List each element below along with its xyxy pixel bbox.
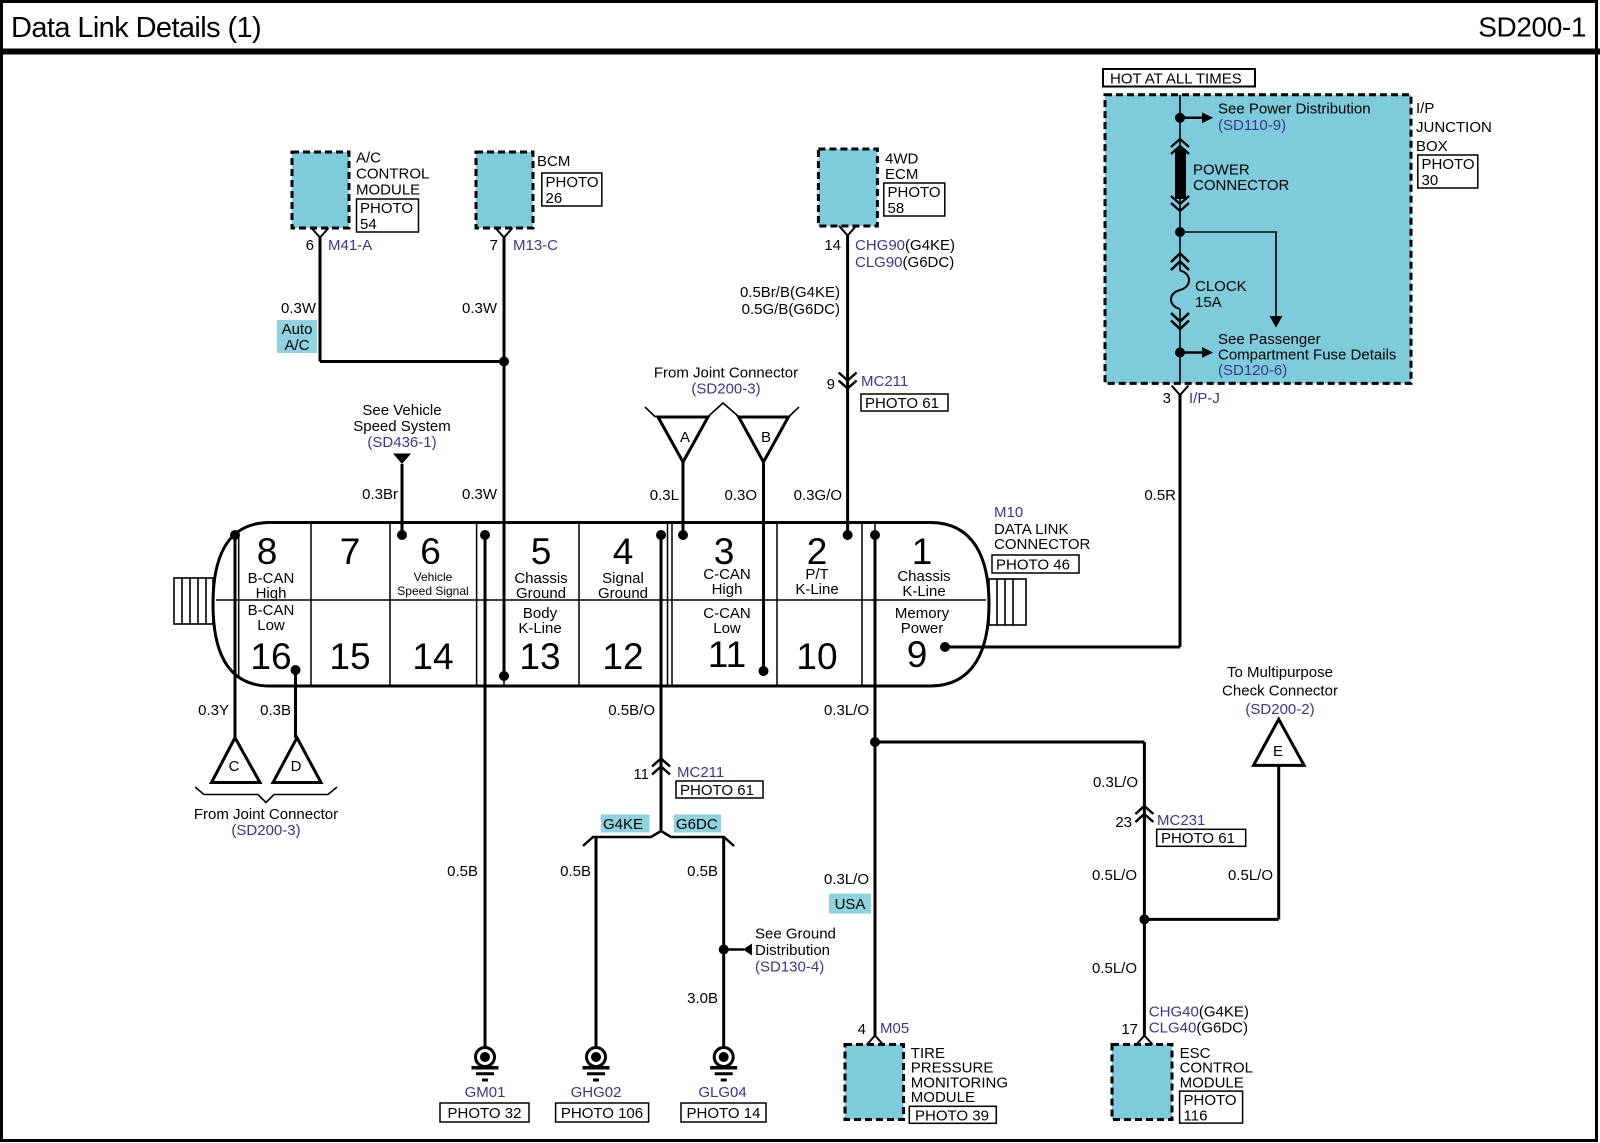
svg-text:K-Line: K-Line: [902, 583, 945, 600]
reference From Joint Connector (SD200-3) top: [654, 365, 798, 398]
svg-text:Compartment Fuse Details: Compartment Fuse Details: [1218, 347, 1396, 364]
node pin 5 dot: [480, 530, 490, 540]
svg-text:Ground: Ground: [598, 585, 648, 602]
svg-text:17: 17: [1121, 1021, 1138, 1038]
svg-text:PHOTO: PHOTO: [360, 200, 413, 217]
svg-text:0.3W: 0.3W: [462, 300, 498, 317]
svg-text:(SD200-3): (SD200-3): [231, 822, 300, 839]
node junction dot power distribution: [1175, 113, 1185, 123]
svg-text:M41-A: M41-A: [328, 237, 372, 254]
svg-text:BCM: BCM: [537, 153, 570, 170]
photo box PHOTO 14: [681, 1103, 766, 1122]
svg-text:PHOTO 14: PHOTO 14: [687, 1105, 761, 1122]
svg-text:0.3Y: 0.3Y: [198, 702, 229, 719]
node junction dot E branch: [1139, 914, 1149, 924]
wire 0.5Br/B 0.5G/B from 4WD ECM: [740, 235, 848, 535]
svg-text:MODULE: MODULE: [1180, 1074, 1244, 1091]
svg-text:26: 26: [546, 190, 563, 207]
label USA: [829, 894, 871, 914]
node pin 13 dot: [499, 671, 509, 681]
inline connector 9 MC211: [827, 373, 909, 394]
svg-text:See Passenger: See Passenger: [1218, 331, 1321, 348]
svg-text:PHOTO 106: PHOTO 106: [561, 1105, 643, 1122]
svg-text:CONNECTOR: CONNECTOR: [1193, 177, 1290, 194]
wire 0.3L/O from pin 1 area to TPMS: [824, 535, 875, 1036]
connector cell 13 Body K-Line: [518, 605, 561, 677]
svg-text:0.5B/O: 0.5B/O: [608, 702, 655, 719]
ground GHG02: [571, 1048, 622, 1102]
wire 0.3Y from pin 8 to triangle C: [198, 535, 235, 738]
wire splitter to G4KE and G6DC branches: [583, 831, 734, 846]
svg-text:I/P: I/P: [1416, 100, 1434, 117]
svg-text:High: High: [712, 581, 743, 598]
svg-text:PHOTO: PHOTO: [546, 174, 599, 191]
svg-text:0.3G/O: 0.3G/O: [794, 487, 842, 504]
reference To Multipurpose Check Connector (SD200-2): [1222, 664, 1338, 718]
svg-text:0.3W: 0.3W: [462, 486, 498, 503]
wire branch to triangle E: [1144, 765, 1278, 919]
wire 0.3B from pin 16 to triangle D: [260, 670, 295, 738]
svg-text:SD200-1: SD200-1: [1478, 12, 1586, 43]
label HOT AT ALL TIMES: [1103, 69, 1255, 88]
connector triangle D: [273, 738, 321, 783]
svg-text:9: 9: [827, 376, 835, 393]
pin 4 M05: [858, 1020, 910, 1045]
connector grid vertical lines: [239, 523, 875, 687]
node pin 3 dot: [678, 530, 688, 540]
svg-text:C: C: [229, 758, 240, 775]
svg-text:Ground: Ground: [516, 585, 566, 602]
svg-text:MC211: MC211: [861, 373, 908, 390]
svg-text:Speed Signal: Speed Signal: [397, 584, 468, 598]
photo box PHOTO 32: [440, 1103, 529, 1122]
svg-text:From Joint Connector: From Joint Connector: [194, 806, 338, 823]
svg-text:4WD: 4WD: [885, 151, 919, 168]
svg-text:Auto: Auto: [282, 321, 313, 338]
photo box PHOTO 54: [357, 199, 419, 233]
wire 0.5B/O from pin 4 to splitter: [608, 535, 661, 831]
wire 0.3O from triangle B to pin 11: [724, 462, 763, 671]
brace over triangles A and B: [645, 403, 799, 417]
svg-text:15A: 15A: [1195, 294, 1222, 311]
svg-text:See Ground: See Ground: [755, 926, 836, 943]
svg-text:PHOTO 32: PHOTO 32: [448, 1105, 522, 1122]
svg-text:4: 4: [858, 1021, 866, 1038]
node junction dot: [499, 357, 509, 367]
photo box PHOTO 58: [884, 183, 945, 217]
svg-text:6: 6: [420, 531, 441, 572]
svg-text:0.5B: 0.5B: [687, 863, 718, 880]
wire 0.3W from A/C module: [281, 237, 320, 362]
connector cell 11 C-CAN Low: [703, 605, 751, 675]
connector cell 4 Signal Ground: [598, 531, 648, 602]
node pin 1 dot: [870, 530, 880, 540]
photo box PHOTO 26: [542, 173, 602, 207]
module TIRE PRESSURE MONITORING MODULE: [845, 1045, 1008, 1120]
connector cell 5 Chassis Ground: [514, 531, 567, 602]
svg-text:14: 14: [412, 636, 453, 677]
svg-text:ECM: ECM: [885, 166, 918, 183]
svg-text:1: 1: [912, 531, 933, 572]
svg-text:PHOTO 61: PHOTO 61: [865, 395, 939, 412]
svg-text:GHG02: GHG02: [571, 1084, 622, 1101]
connector triangle C: [212, 738, 261, 783]
svg-text:4: 4: [613, 531, 634, 572]
svg-text:Vehicle: Vehicle: [414, 570, 453, 584]
svg-text:(SD200-2): (SD200-2): [1245, 701, 1314, 718]
node pin 4 dot: [656, 530, 666, 540]
connector cell 2 P/T K-Line: [795, 531, 838, 598]
photo box PHOTO 30: [1418, 155, 1478, 189]
svg-text:MODULE: MODULE: [911, 1089, 975, 1106]
svg-text:0.3L/O: 0.3L/O: [824, 702, 869, 719]
node ground distribution dot: [719, 945, 729, 955]
svg-text:Check Connector: Check Connector: [1222, 683, 1338, 700]
svg-text:0.3L/O: 0.3L/O: [1093, 774, 1138, 791]
svg-text:9: 9: [907, 634, 928, 675]
connector triangle B: [739, 417, 789, 462]
connector cell 16 B-CAN Low: [248, 602, 295, 677]
svg-text:See Vehicle: See Vehicle: [362, 402, 441, 419]
module BCM: [476, 152, 570, 228]
svg-text:USA: USA: [835, 896, 866, 913]
connector left key tab: [174, 578, 213, 624]
node pin 11 dot: [759, 666, 769, 676]
svg-text:CHG90(G4KE): CHG90(G4KE): [855, 237, 955, 254]
svg-text:Distribution: Distribution: [755, 942, 830, 959]
svg-text:(SD436-1): (SD436-1): [367, 434, 436, 451]
module 4WD ECM: [818, 149, 918, 226]
pin 17 CHG40/CLG40: [1121, 1004, 1249, 1046]
svg-text:(SD200-3): (SD200-3): [691, 381, 760, 398]
svg-text:7: 7: [490, 237, 498, 254]
svg-text:M13-C: M13-C: [513, 237, 558, 254]
label I/P JUNCTION BOX: [1416, 100, 1492, 155]
connector cell 9 Memory Power: [895, 605, 950, 675]
inline connector 23 MC231: [1115, 806, 1205, 831]
node pin 8 dot: [230, 530, 240, 540]
svg-text:PHOTO 61: PHOTO 61: [680, 782, 754, 799]
photo box PHOTO 106: [556, 1103, 649, 1122]
wire 0.5B G6DC branch to GLG04: [687, 837, 724, 1047]
box I/P junction box: [1105, 95, 1411, 384]
svg-text:CLOCK: CLOCK: [1195, 278, 1247, 295]
connector triangle A: [658, 417, 708, 462]
wire inside I/P junction box: [1179, 95, 1181, 271]
svg-text:High: High: [256, 585, 287, 602]
svg-text:0.5G/B(G6DC): 0.5G/B(G6DC): [742, 301, 840, 318]
svg-text:CONTROL: CONTROL: [356, 166, 429, 183]
svg-text:0.5B: 0.5B: [560, 863, 591, 880]
svg-text:0.3O: 0.3O: [724, 487, 757, 504]
svg-text:HOT AT ALL TIMES: HOT AT ALL TIMES: [1110, 71, 1242, 88]
svg-text:12: 12: [602, 636, 643, 677]
reference From Joint Connector (SD200-3) bottom: [194, 806, 338, 839]
svg-text:3.0B: 3.0B: [687, 990, 718, 1007]
svg-text:M05: M05: [880, 1020, 909, 1037]
svg-text:14: 14: [824, 237, 841, 254]
svg-text:11: 11: [708, 634, 746, 675]
svg-text:7: 7: [340, 531, 361, 572]
node junction dot fuse branch: [1175, 227, 1185, 237]
svg-text:5: 5: [531, 531, 552, 572]
connector cell 8 B-CAN High: [248, 531, 295, 602]
svg-text:I/P-J: I/P-J: [1189, 390, 1220, 407]
node pin 16 dot: [291, 665, 301, 675]
svg-text:GLG04: GLG04: [698, 1084, 746, 1101]
node pin 2 dot: [843, 530, 853, 540]
svg-text:Data Link Details (1): Data Link Details (1): [11, 12, 261, 44]
svg-text:CONNECTOR: CONNECTOR: [994, 536, 1091, 553]
svg-text:(SD120-6): (SD120-6): [1218, 362, 1287, 379]
pin 6 M41-A: [306, 228, 373, 254]
label Auto A/C: [277, 320, 317, 354]
pin 3 I/P-J: [1163, 386, 1220, 408]
svg-text:From Joint Connector: From Joint Connector: [654, 365, 798, 382]
svg-text:0.5B: 0.5B: [447, 863, 478, 880]
connector cell 1 Chassis K-Line: [897, 531, 950, 600]
svg-text:0.3L/O: 0.3L/O: [824, 871, 869, 888]
svg-text:0.5L/O: 0.5L/O: [1092, 960, 1137, 977]
photo box PHOTO 46: [992, 555, 1079, 574]
svg-text:JUNCTION: JUNCTION: [1416, 119, 1492, 136]
connector cell 3 C-CAN High: [703, 531, 751, 598]
ground GM01: [465, 1048, 506, 1102]
wire junction to BCM wire: [320, 360, 504, 363]
svg-text:MC231: MC231: [1157, 812, 1205, 829]
node junction dot passenger fuse: [1175, 348, 1185, 358]
photo box PHOTO 61 upper: [861, 394, 948, 412]
svg-text:13: 13: [519, 636, 560, 677]
svg-text:116: 116: [1184, 1108, 1208, 1125]
reference See Power Distribution (SD110-9): [1180, 101, 1371, 135]
ground GLG04: [698, 1048, 746, 1102]
svg-text:A/C: A/C: [356, 150, 381, 167]
wire 0.3W from BCM to pin 13: [462, 237, 504, 676]
svg-text:0.3W: 0.3W: [281, 300, 317, 317]
svg-text:6: 6: [306, 237, 314, 254]
svg-text:23: 23: [1115, 814, 1132, 831]
svg-text:GM01: GM01: [465, 1084, 506, 1101]
svg-text:E: E: [1273, 743, 1283, 760]
svg-text:CLG40(G6DC): CLG40(G6DC): [1149, 1020, 1248, 1037]
svg-text:A: A: [680, 429, 690, 446]
reference See Vehicle Speed System: [353, 402, 451, 464]
label G6DC: [674, 815, 721, 834]
svg-text:0.5R: 0.5R: [1144, 487, 1176, 504]
svg-text:BOX: BOX: [1416, 138, 1448, 155]
svg-text:MC211: MC211: [677, 764, 724, 781]
connector M10 data link connector outline: [213, 523, 989, 687]
svg-text:PHOTO 61: PHOTO 61: [1161, 830, 1235, 847]
connector right key tab: [989, 579, 1026, 625]
svg-text:0.5L/O: 0.5L/O: [1228, 867, 1273, 884]
pin 7 M13-C: [490, 228, 559, 254]
wire 0.5R to pin 9: [945, 395, 1180, 648]
photo box PHOTO 39: [909, 1106, 996, 1124]
label M10 DATA LINK CONNECTOR: [994, 504, 1091, 553]
reference See Passenger Compartment Fuse Details (SD120-6): [1180, 331, 1396, 379]
svg-text:Speed System: Speed System: [353, 418, 451, 435]
svg-text:Low: Low: [257, 617, 285, 634]
label G4KE: [601, 815, 650, 834]
svg-text:A/C: A/C: [284, 337, 309, 354]
svg-text:16: 16: [250, 636, 291, 677]
svg-text:15: 15: [329, 636, 370, 677]
svg-text:POWER: POWER: [1193, 162, 1250, 179]
wire branch to passenger fuse arrow: [1180, 232, 1283, 328]
svg-text:CLG90(G6DC): CLG90(G6DC): [855, 254, 954, 271]
svg-text:8: 8: [257, 531, 278, 572]
module ESC CONTROL MODULE: [1112, 1045, 1253, 1120]
photo box PHOTO 116: [1180, 1091, 1243, 1124]
wire 0.3L from triangle A to pin 3: [650, 462, 683, 535]
fuse CLOCK 15A: [1171, 254, 1247, 330]
wire branch to MC231 and ESC: [875, 741, 1144, 744]
node pin 6 dot: [397, 530, 407, 540]
photo box PHOTO 61 middle: [676, 781, 763, 799]
svg-text:M10: M10: [994, 504, 1023, 521]
svg-text:11: 11: [633, 766, 649, 783]
wire 0.5B from pin 5 area to GM01: [447, 535, 485, 1047]
svg-text:PHOTO 39: PHOTO 39: [915, 1107, 989, 1124]
svg-text:B: B: [761, 429, 771, 446]
power connector symbol: [1171, 139, 1290, 211]
module A/C CONTROL MODULE: [292, 150, 429, 229]
wire 0.3Br to pin 6: [362, 464, 402, 535]
svg-text:PHOTO: PHOTO: [1184, 1092, 1237, 1109]
svg-text:0.3L: 0.3L: [650, 487, 679, 504]
svg-text:30: 30: [1422, 172, 1439, 189]
svg-text:CHG40(G4KE): CHG40(G4KE): [1149, 1004, 1249, 1021]
node branch dot to MC231: [870, 737, 880, 747]
connector cell 6 Vehicle Speed Signal: [397, 531, 468, 598]
photo box PHOTO 61 lower: [1157, 829, 1246, 847]
connector triangle E: [1254, 719, 1305, 765]
wire 0.5B G4KE branch to GHG02: [560, 837, 596, 1047]
svg-text:PHOTO 46: PHOTO 46: [996, 557, 1070, 574]
svg-text:58: 58: [888, 200, 905, 217]
node pin 9 dot: [940, 642, 950, 652]
svg-text:0.3Br: 0.3Br: [362, 486, 398, 503]
svg-text:MODULE: MODULE: [356, 182, 420, 199]
inline connector 11 MC211: [633, 759, 724, 784]
svg-text:K-Line: K-Line: [518, 620, 561, 637]
svg-text:G4KE: G4KE: [603, 816, 643, 833]
pin 14 CHG90/CLG90: [824, 226, 955, 271]
svg-text:D: D: [291, 758, 302, 775]
brace under triangles C and D: [195, 787, 337, 803]
reference See Ground Distribution (SD130-4): [724, 926, 836, 976]
svg-text:0.5Br/B(G4KE): 0.5Br/B(G4KE): [740, 284, 840, 301]
svg-text:See Power Distribution: See Power Distribution: [1218, 101, 1371, 118]
svg-text:3: 3: [1163, 390, 1171, 407]
svg-text:54: 54: [360, 216, 377, 233]
connector grid row divider: [216, 599, 986, 601]
svg-text:To Multipurpose: To Multipurpose: [1227, 664, 1333, 681]
svg-text:K-Line: K-Line: [795, 581, 838, 598]
svg-text:0.5L/O: 0.5L/O: [1092, 867, 1137, 884]
svg-text:PHOTO: PHOTO: [1422, 156, 1475, 173]
svg-text:(SD130-4): (SD130-4): [755, 959, 824, 976]
svg-text:(SD110-9): (SD110-9): [1218, 117, 1286, 134]
svg-text:10: 10: [796, 636, 837, 677]
svg-text:0.3B: 0.3B: [260, 702, 291, 719]
svg-text:PHOTO: PHOTO: [888, 184, 941, 201]
svg-text:G6DC: G6DC: [676, 816, 718, 833]
